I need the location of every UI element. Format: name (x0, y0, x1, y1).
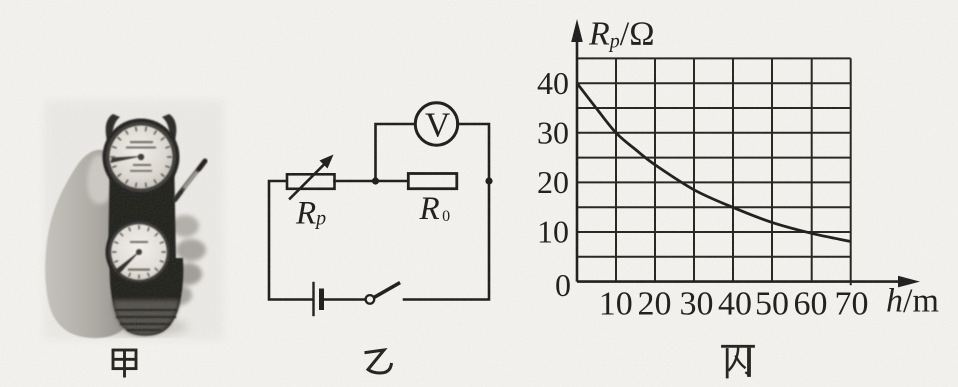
fingers right of console (166, 215, 206, 305)
grid verticals (616, 58, 851, 285)
boot lower sheen (113, 300, 179, 335)
wire: voltmeter to right riser (458, 124, 490, 181)
soft shadow below console (88, 318, 188, 336)
thumb highlight (87, 154, 111, 204)
y tick labels (537, 65, 571, 303)
node B junction dot (485, 177, 492, 184)
curve R_p vs h (577, 83, 851, 241)
y axis arrowhead (571, 19, 583, 42)
resistor R_p arrow (290, 155, 334, 199)
label bing (CJK drawn) (723, 346, 754, 377)
pen probe (175, 161, 205, 200)
top gauge ticks (110, 127, 172, 188)
wire: right vertical of loop (404, 181, 489, 300)
label yi (CJK drawn) (366, 350, 391, 373)
top gauge dial markings (126, 141, 156, 172)
bottom gauge dial markings (128, 241, 150, 271)
bottom gauge bezel (106, 219, 173, 286)
node A junction dot (372, 177, 379, 184)
console boot below bottom gauge (110, 258, 184, 336)
top gauge needle (110, 156, 143, 163)
wire: voltmeter branch left riser (376, 124, 416, 181)
wire: R_p to node A (335, 180, 409, 183)
bottom gauge face (111, 224, 167, 280)
bottom gauge ticks (112, 225, 166, 279)
hand palm and thumb (45, 150, 134, 338)
x axis arrowhead (898, 276, 920, 288)
boot ridges (115, 310, 177, 330)
voltmeter U1 circle (415, 103, 457, 145)
wire: left vertical of loop (269, 181, 313, 300)
resistor R_p box (287, 174, 335, 189)
switch S1 pivot circle (366, 295, 375, 304)
grid horizontals (577, 58, 851, 256)
label jia (CJK drawn) (113, 350, 136, 378)
top gauge face (110, 126, 173, 189)
switch S1 lever (375, 284, 398, 297)
console body between gauges (108, 150, 176, 262)
y axis (576, 38, 579, 282)
resistor R_0 box (408, 174, 457, 189)
battery B1 short thick plate (319, 291, 324, 308)
wire: battery to switch (322, 298, 366, 301)
x axis (577, 280, 902, 283)
bottom gauge needle (115, 250, 141, 274)
x tick labels (599, 286, 869, 323)
photo backdrop (44, 100, 224, 340)
top gauge bezel (103, 119, 180, 196)
top mounting lugs (106, 114, 120, 140)
battery B1 long plate (312, 283, 314, 315)
